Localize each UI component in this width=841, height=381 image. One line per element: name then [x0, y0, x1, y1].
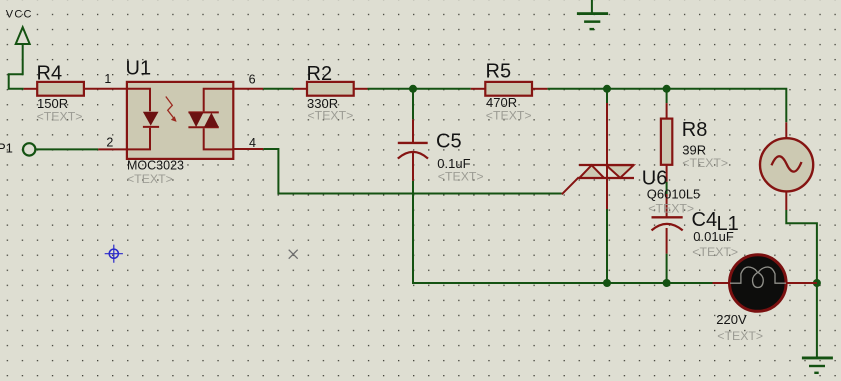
svg-text:Q6010L5: Q6010L5	[647, 186, 701, 201]
svg-text:<TEXT>: <TEXT>	[682, 156, 728, 170]
svg-text:<TEXT>: <TEXT>	[127, 172, 173, 186]
svg-text:<TEXT>: <TEXT>	[308, 109, 354, 123]
svg-text:C4: C4	[692, 209, 718, 231]
svg-text:C5: C5	[436, 131, 462, 153]
svg-text:<TEXT>: <TEXT>	[648, 201, 694, 215]
svg-text:R4: R4	[37, 63, 63, 85]
svg-text:1: 1	[104, 72, 111, 86]
svg-text:220V: 220V	[716, 312, 747, 327]
svg-text:P1: P1	[0, 141, 13, 156]
svg-text:<TEXT>: <TEXT>	[438, 169, 484, 183]
svg-text:MOC3023: MOC3023	[127, 158, 184, 172]
svg-text:R5: R5	[486, 61, 512, 83]
svg-text:<TEXT>: <TEXT>	[486, 109, 532, 123]
svg-text:<TEXT>: <TEXT>	[692, 245, 738, 259]
svg-text:R8: R8	[682, 119, 708, 141]
svg-text:R2: R2	[307, 63, 333, 85]
svg-text:6: 6	[249, 72, 256, 86]
svg-text:VCC: VCC	[6, 8, 33, 20]
svg-text:<TEXT>: <TEXT>	[717, 329, 763, 343]
svg-text:4: 4	[249, 136, 256, 150]
svg-text:2: 2	[106, 135, 113, 149]
svg-text:0.01uF: 0.01uF	[693, 229, 734, 244]
svg-text:<TEXT>: <TEXT>	[37, 110, 83, 124]
svg-text:U1: U1	[126, 58, 152, 80]
